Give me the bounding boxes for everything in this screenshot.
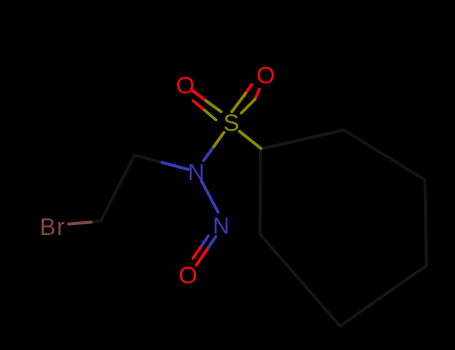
svg-text:Br: Br <box>40 214 65 241</box>
svg-text:N: N <box>188 159 205 185</box>
svg-text:O: O <box>179 263 198 290</box>
svg-text:S: S <box>223 110 239 137</box>
svg-text:O: O <box>176 73 195 100</box>
svg-text:N: N <box>213 213 230 239</box>
svg-text:O: O <box>256 62 275 89</box>
